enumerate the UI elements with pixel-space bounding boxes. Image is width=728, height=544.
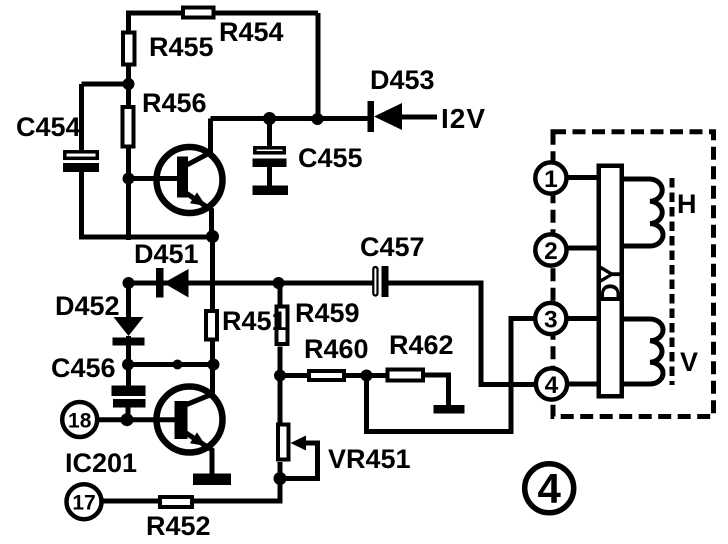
resistor R451 — [206, 311, 217, 340]
wire right vertical x=318 — [316, 13, 321, 119]
capacitor C456 — [112, 386, 146, 420]
svg-text:3: 3 — [544, 306, 558, 333]
diode D452 — [113, 317, 145, 346]
node emitter junction (212.5,236.5) — [206, 230, 219, 243]
yoke core bar — [599, 166, 622, 397]
svg-text:17: 17 — [72, 492, 95, 515]
svg-text:C456: C456 — [51, 353, 116, 383]
wire C454 left vertical x=81.5 — [79, 84, 84, 150]
svg-text:C457: C457 — [360, 232, 425, 262]
wire VR451 to R452 row — [103, 479, 280, 502]
svg-text:C455: C455 — [298, 143, 363, 173]
wire R460 row y=375.5 — [280, 373, 386, 378]
node junction A (128.5,84) — [123, 78, 135, 90]
svg-text:V: V — [680, 347, 698, 377]
wire R451 bottom lead — [210, 342, 215, 365]
capacitor C457 — [373, 266, 388, 297]
resistor R460 — [309, 371, 344, 380]
node junction VR451 wiper (280,478.5) — [274, 472, 287, 485]
inductor V winding — [624, 319, 663, 384]
diode D451 — [156, 268, 189, 298]
wire emitter vertical x=212.5 down to R451 — [210, 237, 215, 310]
resistor R459 — [277, 283, 288, 376]
svg-text:R462: R462 — [389, 330, 454, 360]
svg-text:DY: DY — [596, 265, 626, 303]
potentiometer VR451 — [278, 376, 318, 479]
node base junction (128.5,178.5) — [123, 173, 135, 185]
svg-text:1: 1 — [544, 166, 558, 193]
resistor R454 — [183, 8, 214, 18]
node terminal 1 — [535, 162, 566, 193]
node terminal 2 — [535, 234, 566, 265]
wire C456 node row y=364.5 — [129, 362, 214, 367]
node junction R460/R462 (366.5,375.5) — [361, 370, 373, 382]
wire pin3 lead — [566, 316, 597, 321]
node junction C456 bottom (127,419.7) — [121, 413, 134, 426]
wire base feed y=84 — [82, 82, 129, 87]
pin 17 of IC201 — [67, 484, 102, 519]
node junction collector Q2 (213.5,364.5) — [208, 359, 220, 371]
svg-text:R454: R454 — [219, 17, 284, 47]
wire x=128.5 D452 section — [126, 283, 131, 317]
svg-text:D452: D452 — [55, 291, 120, 321]
capacitor C454 — [63, 152, 99, 172]
svg-text:VR451: VR451 — [328, 444, 411, 474]
node junction 12V rail (317.5,119) — [312, 113, 324, 125]
wire collector rail y=118.5 — [211, 116, 370, 121]
dashed yoke box DY — [553, 132, 714, 417]
svg-text:R460: R460 — [304, 334, 369, 364]
wire pin2 lead — [566, 246, 597, 251]
svg-text:18: 18 — [68, 409, 92, 432]
svg-text:4: 4 — [538, 465, 562, 512]
wire pin1 lead — [566, 175, 597, 180]
svg-text:D453: D453 — [370, 65, 435, 95]
svg-text:R459: R459 — [295, 298, 360, 328]
pin 18 of IC201 — [62, 402, 97, 437]
diode D453 — [368, 101, 438, 132]
ground Q2 emitter — [193, 474, 231, 486]
wire base of Q1 — [129, 176, 178, 181]
wire feedback to pin3 — [367, 319, 535, 432]
wire pin18 to Q2 base — [96, 417, 175, 422]
svg-text:2: 2 — [544, 238, 558, 265]
svg-text:C454: C454 — [16, 112, 81, 142]
svg-text:R452: R452 — [146, 511, 211, 541]
svg-text:H: H — [677, 189, 697, 219]
svg-text:R451: R451 — [222, 306, 287, 336]
resistor R456 — [123, 107, 134, 147]
wire top rail y=13 — [126, 11, 318, 16]
node terminal 4 — [536, 368, 567, 399]
node dot (177.5,364.5) — [173, 360, 183, 370]
svg-text:D451: D451 — [134, 239, 199, 269]
transistor Q2 — [157, 365, 223, 476]
resistor R455 — [123, 33, 135, 65]
svg-text:4: 4 — [545, 372, 559, 399]
node junction C455 (269.5,118.5) — [263, 112, 276, 125]
ground R462 — [434, 405, 465, 414]
svg-text:R456: R456 — [142, 88, 207, 118]
wire pin4 lead — [566, 382, 597, 387]
wire C454 bottom return — [82, 172, 214, 237]
node junction (128,364.5) — [122, 359, 134, 371]
resistor R452 — [160, 497, 192, 507]
svg-text:I2V: I2V — [441, 103, 486, 134]
node junction D451 left (128.5,283) — [123, 277, 135, 289]
wire C457 to yoke pin4 — [389, 283, 535, 385]
circled figure number 4 — [525, 464, 574, 513]
svg-text:R455: R455 — [149, 32, 214, 62]
wire left vertical x=128.5 top section — [126, 13, 131, 240]
wire R462 to ground — [425, 375, 449, 407]
node terminal 3 — [535, 303, 566, 334]
capacitor C455 — [253, 119, 289, 196]
transistor Q1 — [157, 119, 223, 237]
node junction R459 top (278.5,283) — [273, 277, 285, 289]
inductor H winding — [624, 179, 663, 246]
svg-text:IC201: IC201 — [65, 448, 137, 478]
node junction R459 bottom (280,375.5) — [274, 370, 286, 382]
resistor R462 — [388, 370, 424, 381]
wire D451 row y=283 — [129, 281, 373, 286]
dashed yoke inner line — [670, 178, 675, 385]
